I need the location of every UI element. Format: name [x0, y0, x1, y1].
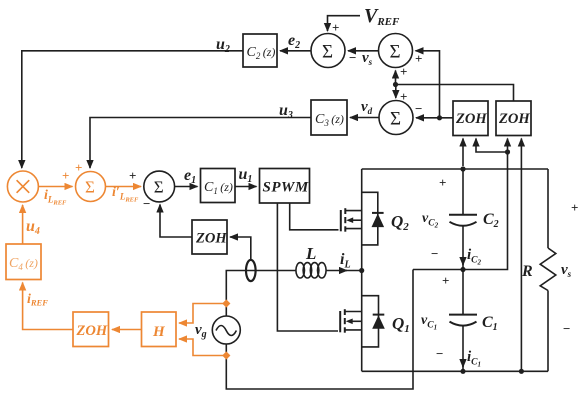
block ZOH1 (vc1 sampler) — [453, 101, 488, 136]
op summer S3 (vc2 - vc1 = vd) — [379, 101, 413, 135]
wire u1: C1(z) to SPWM — [235, 166, 257, 187]
wire capacitor midpoint to vg return riser — [413, 269, 463, 271]
wire e1: S5 to C1(z) — [175, 167, 198, 187]
wire iC1: C1 bottom to bottom rail with arrow — [463, 327, 481, 372]
capacitor C1 top connection — [462, 270, 464, 315]
capacitor C2 — [449, 211, 499, 230]
svg-text:ZOH: ZOH — [76, 323, 108, 339]
wire top rail — [362, 168, 548, 170]
wire vs: S2 output to S1 right (minus) — [348, 50, 379, 67]
svg-text:+: + — [332, 20, 339, 35]
block H (orange) — [142, 312, 177, 347]
wire H output to ZOH (orange) — [112, 329, 142, 331]
svg-text:+: + — [415, 51, 422, 66]
block SPWM — [260, 169, 310, 204]
wire gate drive to Q2 — [290, 203, 339, 230]
svg-text:ZOH: ZOH — [455, 111, 487, 127]
transistor Q2 — [341, 208, 362, 232]
wire rail down to resistor R — [547, 169, 549, 248]
svg-text:−: − — [349, 50, 356, 65]
svg-text:+: + — [442, 273, 449, 288]
wire iC2: C2 bottom to midpoint with arrow — [463, 227, 482, 270]
svg-text:R: R — [521, 263, 533, 280]
label Q2 — [391, 212, 409, 233]
svg-text:C1 (z): C1 (z) — [204, 180, 233, 196]
wire u4: C4(z) output up into multiplier bottom — [23, 205, 40, 244]
svg-text:Σ: Σ — [389, 42, 400, 63]
block ZOH (iL sampler) — [192, 220, 227, 254]
node bridge midpoint dot — [359, 268, 364, 273]
label vC2 — [422, 175, 446, 261]
wire vg top terminal to bridge midpoint through sensor and L — [226, 271, 296, 317]
svg-text:+: + — [129, 168, 136, 183]
svg-text:C4 (z): C4 (z) — [9, 256, 38, 272]
svg-text:−: − — [563, 321, 570, 336]
node vg sense bottom (orange diamond) — [222, 351, 230, 359]
node bottom rail / C1 junction dot — [460, 369, 465, 374]
node A junction dot — [393, 82, 398, 87]
node B junction dot on vc1 sense line — [437, 115, 442, 120]
wire current sensor to ZOH input — [230, 237, 251, 259]
op summer S1 (Vref - vs = e2) — [311, 34, 345, 68]
wire u2: C2(z) output left then down to multiplier — [22, 36, 243, 168]
label Q1 — [392, 314, 410, 335]
wire vg sense bottom into H — [179, 339, 226, 356]
block C2(z) — [243, 34, 277, 67]
wire ZOH2 input left: from midpoint node C up — [507, 139, 509, 153]
svg-text:L: L — [305, 244, 316, 263]
wire i'Lref: orange summer to summer S5 (plus) — [106, 168, 142, 204]
wire bridge leg (top rail to bottom rail) — [361, 169, 363, 371]
wire ZOH1 input left: from top rail junction up — [462, 139, 464, 167]
node capacitor midpoint dot — [460, 267, 465, 272]
wire e2: S1 output to C2(z) — [280, 32, 311, 51]
svg-text:−: − — [431, 246, 438, 261]
block ZOH2 (vc2 sampler) — [496, 101, 531, 136]
svg-text:+: + — [571, 200, 578, 215]
svg-text:C3 (z): C3 (z) — [315, 112, 344, 128]
wire from node A (vc2 line) up into S2 bottom (plus) — [396, 64, 408, 85]
svg-text:Σ: Σ — [85, 178, 95, 197]
block C3(z) — [311, 100, 347, 135]
wire midpoint sense riser: node C down to capacitor midpoint — [463, 152, 508, 270]
svg-text:ZOH: ZOH — [195, 231, 227, 247]
wire vd: S3 output to C3(z) — [350, 99, 379, 118]
wire from node B (vc1 line) up into S2 right (plus) — [415, 51, 440, 118]
op summer S2 (vc1 + vc2 = vs) — [379, 34, 413, 68]
transistor Q2 body diode branch — [362, 192, 378, 245]
wire ZOH2 input right: from bottom rail up — [520, 139, 522, 370]
transistor Q1 body diode branch — [362, 296, 379, 347]
svg-text:+: + — [75, 160, 82, 175]
svg-text:H: H — [152, 324, 166, 340]
node C junction dot (midpoint sense) — [505, 149, 510, 154]
svg-text:−: − — [143, 196, 150, 211]
capacitor C2 top connection — [462, 169, 464, 214]
multiplier M1 — [7, 171, 38, 202]
wire V_REF into summer S1 top — [328, 16, 361, 35]
op summer S4 (orange) — [75, 160, 106, 202]
node vg sense top (orange diamond) — [222, 299, 230, 307]
wire vc1 sample: ZOH1 output into S3 right (minus) — [415, 101, 453, 118]
wire gate drive to Q1 — [277, 203, 338, 331]
label vs (output voltage) — [561, 200, 578, 336]
transistor Q1 — [340, 309, 362, 333]
svg-text:−: − — [436, 346, 443, 361]
diode D1 (body of Q1) — [372, 315, 385, 329]
current sensor CT ellipse — [246, 260, 256, 281]
label vC1 — [421, 273, 449, 361]
wire vg bottom terminal to capacitor midpoint riser — [226, 270, 413, 390]
svg-text:Σ: Σ — [390, 109, 401, 130]
wire ZOH1 input right: from cap midpoint line — [476, 139, 508, 153]
wire iREF: ZOH output left and up into C4(z) — [23, 283, 73, 330]
wire ZOH2 output up and left to node A — [396, 85, 514, 102]
node bottom rail / ZOH2 sense junction dot — [519, 369, 524, 374]
wire node A down into S3 top (plus) — [396, 85, 408, 105]
svg-text:SPWM: SPWM — [263, 180, 309, 196]
wire iLref: multiplier to orange summer (plus) — [38, 168, 72, 207]
wire u3: C3(z) output left then down to orange summer top — [90, 102, 311, 168]
svg-text:+: + — [62, 168, 69, 183]
wire resistor R bottom to bottom rail — [547, 291, 549, 372]
svg-text:−: − — [415, 101, 422, 116]
op summer S5 (current error) — [143, 171, 175, 211]
block C1(z) — [201, 169, 236, 203]
wire iL into bridge midpoint — [326, 251, 362, 271]
capacitor C1 — [449, 314, 498, 333]
block C4(z) (orange) — [6, 244, 41, 280]
svg-text:ZOH: ZOH — [498, 111, 530, 127]
wire bottom rail — [362, 370, 548, 372]
label V_REF — [364, 5, 400, 28]
diode D2 (body of Q2) — [372, 213, 385, 227]
inductor L — [296, 244, 326, 278]
svg-text:C2 (z): C2 (z) — [247, 45, 276, 61]
source vg (AC) — [195, 316, 240, 344]
wire vg sense top into H — [179, 304, 226, 324]
wire ZOH iL output up into S5 bottom (minus) — [160, 205, 192, 238]
node top rail / C2 junction dot — [460, 166, 465, 171]
svg-text:+: + — [439, 175, 446, 190]
block ZOH (orange, vg sampler) — [73, 312, 109, 347]
svg-text:Σ: Σ — [322, 42, 333, 63]
resistor R — [521, 248, 556, 291]
svg-text:Σ: Σ — [154, 178, 164, 197]
svg-text:+: + — [400, 64, 407, 79]
